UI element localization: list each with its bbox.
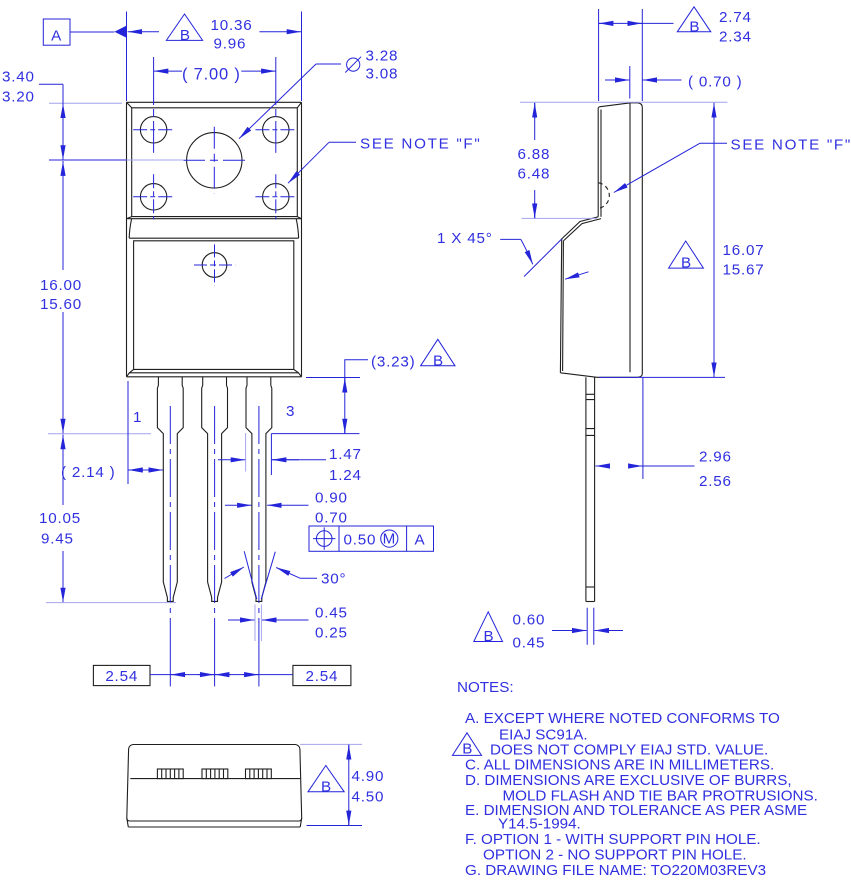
tab corner hole BL bbox=[140, 184, 166, 210]
svg-text:0.60: 0.60 bbox=[513, 612, 546, 629]
svg-text:D. DIMENSIONS ARE EXCLUSIVE OF: D. DIMENSIONS ARE EXCLUSIVE OF BURRS, bbox=[465, 772, 792, 789]
lead 1 outline bbox=[157, 377, 183, 602]
svg-text:0.50: 0.50 bbox=[344, 532, 377, 549]
svg-text:1: 1 bbox=[133, 409, 142, 426]
svg-text:0.45: 0.45 bbox=[315, 605, 348, 622]
svg-text:16.00: 16.00 bbox=[40, 277, 82, 294]
svg-text:SEE NOTE "F": SEE NOTE "F" bbox=[360, 136, 481, 153]
bottom view lead section 2 bbox=[202, 769, 228, 779]
svg-text:OPTION 2 - NO SUPPORT PIN HOLE: OPTION 2 - NO SUPPORT PIN HOLE. bbox=[483, 847, 747, 864]
svg-text:NOTES:: NOTES: bbox=[457, 679, 514, 696]
svg-text:F. OPTION 1 - WITH SUPPORT PIN: F. OPTION 1 - WITH SUPPORT PIN HOLE. bbox=[465, 831, 761, 848]
svg-text:1 X 45°: 1 X 45° bbox=[437, 230, 493, 247]
dimension (3.23) with B flag bbox=[306, 339, 455, 433]
svg-text:9.96: 9.96 bbox=[214, 36, 247, 53]
side lead outline bbox=[586, 377, 595, 601]
svg-text:SEE NOTE "F": SEE NOTE "F" bbox=[731, 137, 851, 154]
svg-text:( 7.00 ): ( 7.00 ) bbox=[182, 66, 241, 84]
svg-text:2.56: 2.56 bbox=[699, 473, 732, 490]
dimension (7.00) bbox=[154, 66, 276, 84]
side view outline bbox=[560, 103, 642, 378]
svg-text:B: B bbox=[433, 352, 444, 369]
bottom view lead section 1 bbox=[157, 769, 183, 779]
svg-text:Y14.5-1994.: Y14.5-1994. bbox=[498, 816, 581, 833]
feature control frame 0.50 M A bbox=[309, 526, 434, 551]
svg-text:9.45: 9.45 bbox=[41, 531, 74, 548]
svg-text:3.28: 3.28 bbox=[366, 48, 399, 65]
leader SEE NOTE F side bbox=[614, 137, 851, 193]
svg-text:0.90: 0.90 bbox=[315, 490, 348, 507]
svg-text:0.25: 0.25 bbox=[315, 625, 348, 642]
front view body outline bbox=[127, 219, 302, 377]
svg-text:2.54: 2.54 bbox=[105, 668, 138, 685]
lead 3 outline bbox=[246, 377, 272, 602]
svg-text:6.48: 6.48 bbox=[518, 166, 551, 183]
svg-text:3.20: 3.20 bbox=[2, 89, 35, 106]
lead center lines bbox=[169, 406, 171, 642]
svg-text:3.08: 3.08 bbox=[366, 66, 399, 83]
basic dimension boxes 2.54 bbox=[93, 665, 351, 685]
svg-text:1.47: 1.47 bbox=[329, 446, 362, 463]
svg-text:G. DRAWING FILE NAME: TO220M03: G. DRAWING FILE NAME: TO220M03REV3 bbox=[465, 862, 766, 879]
svg-text:15.67: 15.67 bbox=[723, 262, 765, 279]
svg-text:3: 3 bbox=[286, 403, 295, 420]
svg-text:10.05: 10.05 bbox=[39, 510, 81, 527]
svg-text:4.50: 4.50 bbox=[352, 789, 385, 806]
dimension 10.05/9.45 bbox=[39, 434, 176, 603]
leader SEE NOTE F front bbox=[288, 136, 481, 184]
svg-text:16.07: 16.07 bbox=[723, 242, 765, 259]
svg-text:2.96: 2.96 bbox=[699, 449, 732, 466]
dimension 4.90/4.50 with B flag bbox=[300, 744, 384, 825]
svg-text:(3.23): (3.23) bbox=[371, 354, 415, 371]
svg-text:B: B bbox=[180, 27, 191, 44]
triangle B flag top bbox=[166, 14, 202, 44]
bottom view lead section 3 bbox=[246, 769, 272, 779]
dimension (0.70) bbox=[605, 66, 743, 99]
dimension 16.07/15.67 with B flag bbox=[599, 103, 765, 378]
svg-text:2.34: 2.34 bbox=[719, 29, 752, 46]
datum A box bbox=[43, 19, 126, 45]
leader dia 3.28/3.08 bbox=[239, 48, 398, 139]
support pin hole dashed bbox=[599, 183, 610, 209]
svg-text:B: B bbox=[462, 741, 472, 758]
front view tab outline bbox=[127, 102, 302, 377]
lead 2 outline bbox=[202, 377, 228, 602]
dimension 0.90/0.70 bbox=[225, 490, 348, 527]
svg-text:M: M bbox=[383, 531, 396, 548]
dimension 16.00/15.60 bbox=[40, 161, 82, 434]
svg-text:( 0.70 ): ( 0.70 ) bbox=[688, 74, 743, 91]
svg-text:1.24: 1.24 bbox=[329, 467, 362, 484]
tab corner hole TR bbox=[263, 117, 289, 143]
dimension 2.96/2.56 bbox=[596, 378, 732, 491]
svg-text:B: B bbox=[484, 628, 495, 645]
body hole bbox=[202, 253, 227, 278]
svg-text:( 2.14 ): ( 2.14 ) bbox=[61, 464, 116, 481]
small surface arrow bbox=[565, 272, 589, 279]
dimension 0.60/0.45 with B flag bbox=[474, 608, 623, 652]
svg-text:3.40: 3.40 bbox=[2, 69, 35, 86]
svg-text:30°: 30° bbox=[321, 571, 346, 588]
30 degree construction lines and leaders bbox=[225, 551, 347, 599]
leader 1 X 45 bbox=[437, 230, 533, 264]
svg-text:0.45: 0.45 bbox=[513, 635, 546, 652]
svg-text:B: B bbox=[689, 18, 700, 35]
dimension 3.40/3.20 bbox=[2, 69, 184, 161]
dimension 6.88/6.48 bbox=[518, 102, 728, 218]
center lines of holes bbox=[133, 57, 296, 286]
dimension 10.36/9.96 bbox=[127, 12, 302, 102]
svg-text:2.54: 2.54 bbox=[306, 668, 339, 685]
svg-text:10.36: 10.36 bbox=[211, 17, 253, 34]
svg-text:A: A bbox=[51, 27, 62, 44]
svg-text:0.70: 0.70 bbox=[315, 510, 348, 527]
tab corner hole TL bbox=[140, 117, 166, 143]
svg-text:A. EXCEPT WHERE NOTED CONFORMS: A. EXCEPT WHERE NOTED CONFORMS TO bbox=[465, 710, 780, 727]
dimension (2.14) bbox=[61, 381, 163, 484]
dimension 2.74/2.34 with B flag bbox=[599, 7, 752, 101]
svg-text:6.88: 6.88 bbox=[518, 146, 551, 163]
svg-text:4.90: 4.90 bbox=[352, 768, 385, 785]
svg-text:C. ALL DIMENSIONS ARE IN MILLI: C. ALL DIMENSIONS ARE IN MILLIMETERS. bbox=[465, 757, 774, 774]
svg-text:A: A bbox=[415, 532, 426, 549]
svg-text:2.74: 2.74 bbox=[719, 9, 752, 26]
tab corner hole BR bbox=[263, 184, 289, 210]
svg-text:B: B bbox=[321, 778, 332, 795]
chamfer construction line bbox=[524, 239, 562, 277]
tab hole big bbox=[187, 133, 242, 188]
bottom view outline bbox=[127, 745, 302, 828]
svg-text:15.60: 15.60 bbox=[40, 296, 82, 313]
dimension 0.45/0.25 bbox=[228, 605, 348, 642]
svg-text:B: B bbox=[681, 254, 692, 271]
dimension 1.47/1.24 bbox=[218, 433, 362, 484]
